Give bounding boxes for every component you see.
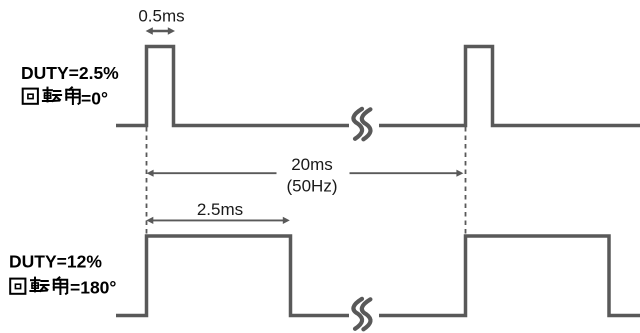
dimension arrow 0.5ms (double-headed) [146, 27, 175, 34]
svg-text:=180°: =180° [70, 278, 116, 298]
wire bottom waveform left segment with pulse 1 [116, 236, 349, 316]
break symbol bottom (double squiggle) [353, 299, 370, 330]
svg-text:2.5ms: 2.5ms [197, 200, 243, 219]
break symbol top (double squiggle) [353, 109, 370, 140]
svg-text:=0°: =0° [81, 89, 108, 109]
wire top waveform right segment with pulse 2 [379, 47, 640, 126]
dashed guide line right (x=465.5) [465, 127, 467, 236]
svg-text:DUTY=12%: DUTY=12% [9, 252, 102, 272]
wire bottom waveform right segment with pulse 2 [379, 236, 640, 316]
wire top waveform left segment with pulse 1 [116, 47, 349, 126]
kanji 回転角 (bottom label) [10, 277, 67, 294]
svg-text:DUTY=2.5%: DUTY=2.5% [21, 63, 119, 83]
kanji 回転角 (top label) [23, 87, 80, 104]
svg-text:20ms: 20ms [291, 155, 333, 174]
dashed guide line left (x=146.5) [146, 127, 148, 236]
dimension arrow 2.5ms (double-headed) [146, 217, 289, 224]
dimension arrow 20ms (double-headed, gap for text) [147, 170, 464, 177]
svg-text:0.5ms: 0.5ms [138, 7, 184, 26]
svg-text:(50Hz): (50Hz) [286, 177, 337, 196]
